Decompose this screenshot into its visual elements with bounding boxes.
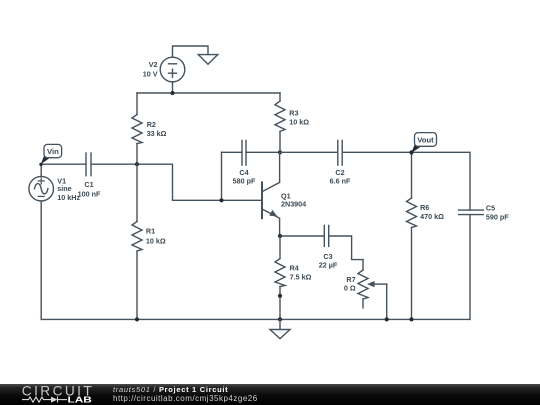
wire Vout node to C5 — [412, 152, 471, 210]
node junction V2 bottom — [170, 91, 174, 95]
wire V2 top to ground — [173, 46, 209, 57]
svg-text:http://circuitlab.com/cmj35kp4: http://circuitlab.com/cmj35kp4zge26 — [113, 394, 258, 403]
transistor Q1 2N3904 — [262, 152, 280, 236]
svg-text:sine: sine — [57, 184, 71, 193]
svg-text:10 V: 10 V — [143, 69, 158, 78]
svg-text:2N3904: 2N3904 — [281, 200, 306, 209]
svg-text:LAB: LAB — [68, 396, 92, 405]
node junction Vout — [409, 150, 413, 154]
node junction rail/ground — [278, 317, 282, 321]
flag Vout — [410, 133, 437, 155]
svg-text:C5: C5 — [486, 204, 495, 213]
svg-text:10 kΩ: 10 kΩ — [289, 118, 309, 127]
voltage source V1 (sine) — [29, 164, 54, 319]
svg-text:470 kΩ: 470 kΩ — [420, 212, 444, 221]
node junction R7 wiper/rail — [385, 317, 389, 321]
svg-text:7.5 kΩ: 7.5 kΩ — [290, 272, 312, 281]
svg-text:590 pF: 590 pF — [486, 213, 509, 222]
potentiometer R7 — [358, 260, 387, 320]
resistor R6 — [407, 152, 417, 319]
resistor R1 — [132, 164, 142, 319]
node junction collector — [278, 150, 282, 154]
resistor R2 — [132, 93, 142, 164]
svg-text:580 pF: 580 pF — [233, 177, 256, 186]
CircuitLab logo — [22, 383, 94, 404]
svg-text:33 kΩ: 33 kΩ — [147, 129, 167, 138]
svg-text:R6: R6 — [420, 203, 429, 212]
capacitor C4 — [222, 140, 281, 200]
svg-text:R2: R2 — [147, 120, 156, 129]
capacitor C3 — [324, 225, 363, 259]
capacitor C1 — [86, 153, 91, 176]
wire Vin node to C1 — [41, 163, 86, 165]
svg-text:Vin: Vin — [47, 147, 59, 156]
capacitor C2 — [280, 140, 412, 165]
svg-text:0 Ω: 0 Ω — [344, 284, 356, 293]
resistor R4 — [275, 236, 285, 319]
wire bottom rail — [41, 318, 470, 320]
node junction R4 bottom — [278, 294, 282, 298]
wire emitter node to C3 — [280, 235, 324, 237]
flag Vin — [39, 144, 61, 166]
ground (bottom) — [270, 319, 290, 338]
svg-text:Vout: Vout — [417, 136, 434, 145]
svg-text:R1: R1 — [146, 227, 155, 236]
svg-text:V2: V2 — [149, 60, 158, 69]
svg-text:C1: C1 — [84, 180, 93, 189]
wire V2 bottom — [172, 82, 174, 93]
svg-text:R3: R3 — [289, 108, 298, 117]
node junction R2/R1/C1 — [135, 162, 139, 166]
svg-text:10 kΩ: 10 kΩ — [146, 237, 166, 246]
ground (top, near V2) — [198, 55, 218, 65]
capacitor C5 — [459, 210, 484, 319]
svg-text:6.6 nF: 6.6 nF — [330, 177, 351, 186]
node junction R6/rail — [409, 317, 413, 321]
node junction C4/base — [219, 198, 223, 202]
resistor R3 — [275, 93, 285, 152]
svg-text:100 nF: 100 nF — [78, 189, 101, 198]
voltage source V2 — [160, 57, 185, 82]
node junction R1/rail — [135, 317, 139, 321]
footer bar — [0, 384, 540, 405]
wire Vin row (C1 output to base jog) — [91, 164, 262, 200]
svg-text:trauts501 / Project 1 Circuit: trauts501 / Project 1 Circuit — [113, 385, 228, 394]
svg-text:22 µF: 22 µF — [319, 261, 338, 270]
wire top rail — [137, 92, 280, 94]
node junction emitter/R4/C3 — [278, 234, 282, 238]
